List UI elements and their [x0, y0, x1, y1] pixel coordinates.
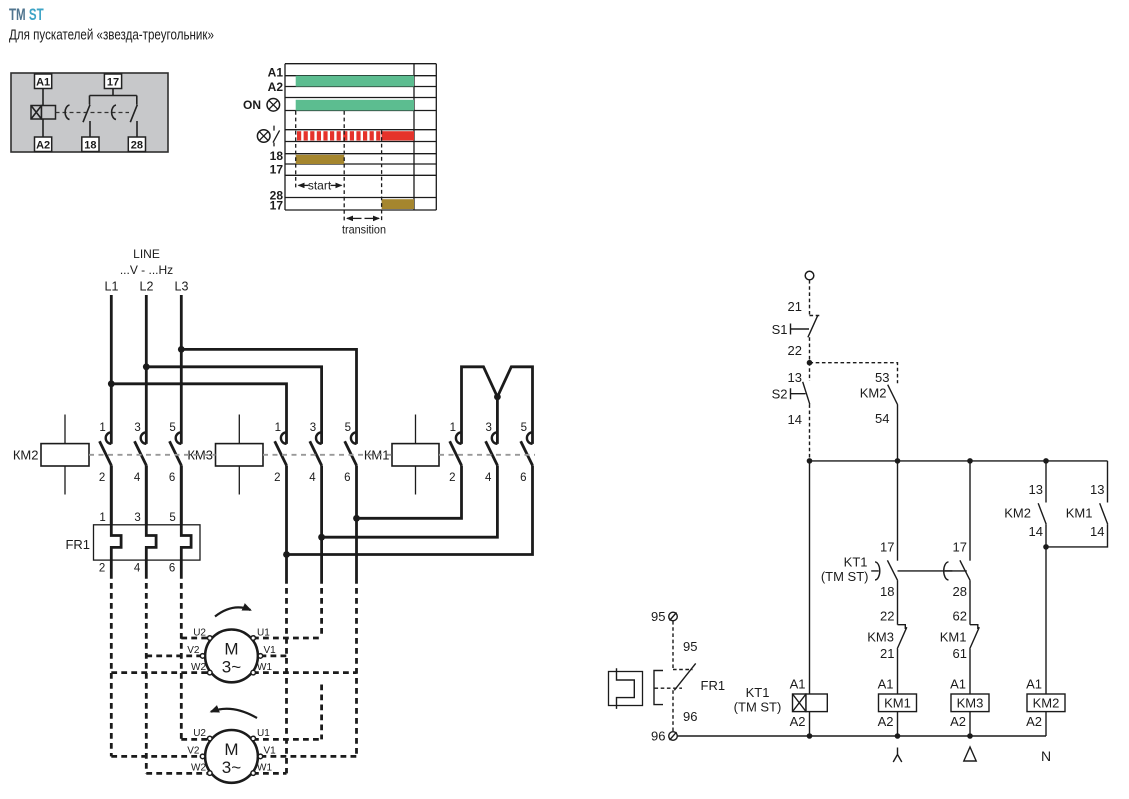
motor M1 terminal V2 [187, 645, 205, 658]
wire KM2 coil to bottom bus [1045, 712, 1047, 736]
timed contact 17-28 blade [130, 105, 137, 123]
node bottom bus x897 [895, 733, 901, 739]
cable motor2 W1 row [253, 772, 287, 775]
svg-text:61: 61 [953, 646, 967, 661]
terminal box A1 [35, 74, 52, 89]
svg-text:5: 5 [169, 512, 175, 524]
svg-text:L1: L1 [105, 280, 119, 294]
motor M1 terminal U2 [193, 628, 212, 641]
coil KM2 [13, 415, 89, 495]
contact blade pole 1-2 [450, 441, 462, 465]
wire bus to KT1 contact 17b [969, 461, 971, 561]
timed contact 17-18 delay arc [65, 105, 69, 120]
coil KT1 [793, 694, 828, 712]
coil KM1 [879, 694, 917, 712]
label KT1 (TM ST) contacts [821, 555, 869, 584]
svg-text:2: 2 [274, 472, 280, 484]
svg-text:transition: transition [342, 222, 386, 236]
pin 4 [134, 472, 141, 484]
pin 6 [520, 472, 526, 484]
svg-text:6: 6 [169, 562, 175, 574]
svg-text:U2: U2 [193, 628, 206, 639]
stop button S1 blade [808, 316, 818, 338]
wire KM2 14 to coil [1045, 524, 1047, 694]
motor M2 terminal U1 [251, 728, 270, 741]
node bus x1046 [1043, 458, 1049, 464]
FR1 bracket [654, 671, 663, 705]
chart label A1 A2 [268, 66, 284, 94]
pin 53 [875, 370, 889, 385]
supply terminal circle [805, 271, 814, 280]
svg-text:18: 18 [880, 584, 894, 599]
svg-text:28: 28 [131, 139, 143, 151]
pin A1 KM2 [1026, 677, 1042, 692]
svg-text:LINE: LINE [133, 247, 160, 261]
svg-text:2: 2 [99, 562, 105, 574]
pin 21 [788, 299, 802, 314]
wire KM1 coil to bottom bus [897, 712, 899, 736]
wire A1 box to coil [42, 89, 44, 106]
delta symbol [964, 747, 976, 761]
pin 28 [953, 584, 967, 599]
svg-text:ON: ON [243, 98, 261, 112]
wire KM3 pole 4 output [320, 465, 323, 578]
svg-text:17: 17 [270, 163, 284, 177]
FR1 pin 5 [169, 512, 175, 524]
svg-text:4: 4 [309, 472, 316, 484]
pin 14 (KM1 aux) [1090, 524, 1104, 539]
svg-text:A2: A2 [268, 80, 284, 94]
node L3 branch [178, 346, 185, 353]
svg-text:5: 5 [169, 422, 175, 434]
node KM2-KM1 aux join [1043, 544, 1049, 550]
svg-text:22: 22 [880, 609, 894, 624]
contact terminal arc pole 3 [316, 432, 322, 444]
timed contact KT1 17-18 arc [871, 562, 880, 580]
svg-text:1: 1 [99, 512, 105, 524]
pin 2 [449, 472, 455, 484]
svg-text:3: 3 [485, 422, 491, 434]
label LINE ...V - ...Hz [120, 247, 173, 277]
wire KM1 pole 2 to net C [357, 465, 462, 518]
contact blade pole 3-4 [486, 441, 498, 465]
node net B junction [318, 534, 325, 541]
chart bar flashing lamp (red striped then solid) [297, 131, 414, 140]
cable motor1 W1 row [253, 671, 357, 674]
svg-text:28: 28 [953, 584, 967, 599]
FR1 heater pole 5-6 [181, 465, 191, 573]
chart label ON [243, 98, 261, 112]
cable motor2 U2 row [181, 738, 209, 741]
svg-text:(TM ST): (TM ST) [734, 700, 782, 715]
svg-text:4: 4 [134, 562, 141, 574]
contact terminal arc pole 5 [351, 432, 357, 444]
svg-text:КМ2: КМ2 [13, 447, 39, 462]
node bus x897 [895, 458, 901, 464]
cable motor2 V2 row [111, 755, 202, 758]
terminal 96 [669, 732, 678, 741]
wire KM3 coil to bottom bus [969, 712, 971, 736]
pin 4 [309, 472, 316, 484]
pin 13 (KM1 aux) [1090, 482, 1104, 497]
wire L1 to KM3 pole 1 [111, 384, 286, 444]
wire KM1 pole 4 to net B [322, 465, 498, 537]
chart dashed time marker t2 [381, 131, 383, 222]
wire 21 to KM1 coil [897, 649, 899, 694]
FR1 pin 3 [134, 512, 140, 524]
svg-text:W2: W2 [191, 763, 206, 774]
node S1-S2 branch [807, 360, 813, 366]
contact terminal arc pole 5 [176, 432, 182, 444]
thermal relay FR1 box [65, 525, 200, 560]
svg-text:14: 14 [788, 412, 802, 427]
timed contact KT1 17-18 blade [887, 560, 897, 580]
svg-text:21: 21 [880, 646, 894, 661]
pin 95 top [651, 609, 665, 624]
contact terminal arc pole 5 [527, 432, 533, 444]
pin 14 [788, 412, 802, 427]
contact blade pole 5-6 [170, 441, 182, 465]
pin 18 [880, 584, 894, 599]
terminal box 18 [82, 137, 99, 152]
FR1 pin 4 [134, 562, 141, 574]
svg-text:KM1: KM1 [940, 629, 967, 644]
label FR1 (control) [701, 678, 726, 693]
contact blade pole 5-6 [345, 441, 357, 465]
svg-text:M: M [224, 740, 238, 759]
pin A1 KT1 [790, 677, 806, 692]
coil KM3 [187, 415, 263, 495]
svg-text:18: 18 [84, 139, 96, 151]
svg-text:2: 2 [449, 472, 455, 484]
FR1 trip contact blade [674, 663, 695, 690]
wire S2 to bus [809, 404, 811, 461]
wire bus elbow to KM1 13 [1107, 461, 1109, 503]
chart lamp contact symbol [273, 126, 280, 147]
pin 1 [99, 422, 105, 434]
motor M2 terminal V2 [187, 746, 205, 759]
svg-text:start: start [308, 179, 332, 193]
wire 18 to 22 [897, 581, 899, 625]
svg-text:13: 13 [1090, 482, 1104, 497]
mechanical link KM1 [439, 454, 535, 456]
svg-text:53: 53 [875, 370, 889, 385]
cable motor1 W2 row [111, 671, 209, 674]
FR1 heater pictogram [609, 668, 643, 709]
motor M1 terminal W1 [251, 662, 273, 675]
FR1 trip contact seat [673, 669, 693, 671]
wire between KT1 contacts [898, 570, 967, 572]
svg-text:3: 3 [134, 422, 140, 434]
timing chart grid [285, 64, 436, 210]
chart bar 18-17 closed (brown) [296, 155, 345, 164]
relay pictogram TM ST outline [11, 73, 168, 152]
pin 14 (KM2 aux) [1029, 524, 1043, 539]
wire 61 to KM3 coil [969, 649, 971, 694]
start button S2 actuator [772, 387, 806, 402]
FR1 mechanical link [655, 687, 683, 689]
title TM ST [9, 6, 44, 25]
star bridge KM1 [462, 367, 533, 444]
wire 28 to 62 [969, 581, 971, 625]
svg-text:14: 14 [1029, 524, 1043, 539]
svg-text:V2: V2 [187, 746, 200, 757]
svg-text:V2: V2 [187, 645, 200, 656]
svg-text:KM1: KM1 [884, 696, 911, 711]
svg-text:A2: A2 [878, 714, 894, 729]
motor M2 [205, 730, 258, 783]
cable motor2 U1 row [253, 738, 322, 741]
net B vertical upper (KM3 pole4 output) [320, 578, 323, 638]
wire KM3 pole 2 output [285, 465, 288, 578]
contact terminal arc pole 3 [141, 432, 147, 444]
wire contact1 to 18 box [89, 121, 91, 137]
svg-text:6: 6 [520, 472, 526, 484]
svg-text:95: 95 [651, 609, 665, 624]
svg-text:1: 1 [275, 422, 281, 434]
svg-text:13: 13 [788, 370, 802, 385]
cable motor1 V2 row [146, 655, 202, 658]
node net A junction [283, 551, 290, 558]
node L1 branch [108, 380, 115, 387]
svg-text:KM1: KM1 [1066, 506, 1093, 521]
pin 61 [953, 646, 967, 661]
mechanical link KM2 [89, 454, 216, 456]
coil KT (X-box) [31, 106, 56, 120]
svg-text:A1: A1 [268, 66, 284, 80]
terminal 95 [669, 612, 678, 621]
stop button S1 actuator [772, 322, 809, 337]
contact blade pole 5-6 [521, 441, 533, 465]
wire KM2 pole 6 to FR1 [180, 465, 183, 524]
subtitle [9, 26, 214, 43]
pin 5 [345, 422, 351, 434]
svg-text:КМ3: КМ3 [187, 447, 213, 462]
aux contact KM1 62-61 [940, 625, 980, 649]
svg-text:KM2: KM2 [860, 386, 887, 401]
label N [1041, 748, 1051, 764]
pin 6 [344, 472, 350, 484]
motor M1 rotation arrow [215, 607, 251, 616]
pin 22 (KM3 aux) [880, 609, 894, 624]
wire bus to KM2 13 [1045, 461, 1047, 503]
wire L1 [110, 295, 113, 444]
svg-text:1: 1 [99, 422, 105, 434]
svg-text:A2: A2 [36, 139, 50, 151]
node bus x970 [967, 458, 973, 464]
motor M2 terminal U2 [193, 728, 212, 741]
chart label 28 17 [270, 189, 284, 213]
svg-text:3~: 3~ [222, 758, 241, 777]
net B vertical lower [320, 685, 323, 740]
wire KM3 pole 6 output [355, 465, 358, 578]
motor M2 terminal V1 [258, 746, 276, 759]
timed contact 17-18 blade [83, 105, 90, 123]
svg-text:Для пускателей «звезда-треугол: Для пускателей «звезда-треугольник» [9, 26, 214, 43]
svg-text:21: 21 [788, 299, 802, 314]
pin A2 KM2 [1026, 714, 1042, 729]
svg-text:96: 96 [683, 709, 697, 724]
control bottom bus [677, 735, 1046, 737]
terminal box 28 [128, 137, 145, 152]
start button S2 blade [803, 382, 810, 405]
wire S1 to S2 [809, 337, 811, 381]
pin 17 (branch KM1) [880, 540, 894, 555]
pin 5 [521, 422, 527, 434]
svg-text:13: 13 [1029, 482, 1043, 497]
svg-text:W1: W1 [257, 662, 272, 673]
node L2 branch [143, 363, 150, 370]
svg-text:14: 14 [1090, 524, 1104, 539]
wire L2 [145, 295, 148, 444]
pin 21 (KM3 aux) [880, 646, 894, 661]
svg-text:W1: W1 [257, 763, 272, 774]
pin 3 [310, 422, 316, 434]
motor M1 terminal W2 [191, 662, 212, 675]
contact terminal arc pole 1 [281, 432, 287, 444]
svg-text:22: 22 [788, 343, 802, 358]
wire KM1 14 to join [1046, 524, 1108, 547]
svg-text:L3: L3 [175, 280, 189, 294]
timed contact KT1 17-28 arc [944, 562, 953, 580]
pin 17 (branch KM3) [953, 540, 967, 555]
pin 2 [274, 472, 280, 484]
wire bus to KT1 contact 17 [897, 461, 899, 561]
chart bar 28-17 closed (brown) [382, 199, 414, 209]
chart start interval arrows and label [299, 179, 342, 193]
svg-text:A1: A1 [790, 677, 806, 692]
svg-text:5: 5 [521, 422, 527, 434]
pin 4 [485, 472, 492, 484]
svg-text:KM3: KM3 [867, 629, 894, 644]
svg-text:TM ST: TM ST [9, 6, 44, 25]
svg-text:KM2: KM2 [1004, 506, 1031, 521]
label L1 L2 L3 [105, 280, 189, 294]
wire 95 to FR1 contact [672, 621, 674, 669]
svg-text:2: 2 [99, 472, 105, 484]
svg-text:FR1: FR1 [65, 537, 90, 552]
pin A2 KT1 [790, 714, 806, 729]
motor M2 rotation arrow [211, 709, 257, 718]
svg-text:N: N [1041, 748, 1051, 764]
svg-text:3: 3 [134, 512, 140, 524]
FR1 pin 6 [169, 562, 175, 574]
svg-text:A2: A2 [1026, 714, 1042, 729]
cable FR1 pole4 to motors (phase L2) [145, 573, 148, 773]
terminal box 17 [104, 74, 121, 89]
pin 1 [450, 422, 456, 434]
svg-text:U1: U1 [257, 728, 270, 739]
svg-text:54: 54 [875, 411, 889, 426]
wire L3 [180, 295, 183, 444]
svg-text:V1: V1 [264, 746, 277, 757]
pin A1 KM3 [950, 677, 966, 692]
contact terminal arc pole 3 [492, 432, 498, 444]
contact blade pole 3-4 [310, 441, 322, 465]
timed contact 17-28 delay arc [112, 105, 116, 120]
svg-text:62: 62 [953, 609, 967, 624]
pin 6 [169, 472, 175, 484]
pin A1 KM1 [878, 677, 894, 692]
chart dashed time marker t0 [295, 111, 297, 188]
aux contact KM1 13-14 blade [1066, 503, 1108, 524]
svg-text:KM3: KM3 [957, 696, 984, 711]
svg-text:6: 6 [169, 472, 175, 484]
svg-text:L2: L2 [140, 280, 154, 294]
node star point [494, 394, 501, 401]
svg-text:(TM ST): (TM ST) [821, 569, 869, 584]
svg-text:KM2: KM2 [1033, 696, 1060, 711]
wire branch to KM2 53 [810, 363, 898, 384]
chart bar ON lamp (green) [296, 100, 414, 111]
wire coil to A2 box [42, 119, 44, 137]
svg-text:...V - ...Hz: ...V - ...Hz [120, 263, 173, 277]
chart lamp symbol flashing [257, 130, 270, 143]
pin A2 KM3 [950, 714, 966, 729]
pin 3 [134, 422, 140, 434]
node bottom bus x809 [807, 733, 813, 739]
motor M1 terminal V1 [258, 645, 276, 658]
cable FR1 pole6 to motors (phase L3) [180, 573, 183, 739]
wire L3 to KM3 pole 5 [181, 349, 356, 444]
motor M1 [205, 630, 258, 683]
svg-text:FR1: FR1 [701, 678, 726, 693]
cable motor2 V1 row [261, 755, 357, 758]
chart bar A1A2 energized (green) [296, 76, 414, 87]
contact terminal arc pole 1 [456, 432, 462, 444]
pin 62 [953, 609, 967, 624]
wire FR1 contact to 96 [672, 690, 674, 732]
net C vertical (KM3 pole6 output) [355, 578, 358, 756]
cable motor1 U1 row [253, 637, 322, 640]
cable motor1 V1 row [261, 655, 287, 658]
node bus x809 [807, 458, 813, 464]
motor M2 terminal W2 [191, 763, 212, 776]
chart dashed time marker t1 [343, 111, 345, 222]
svg-text:A1: A1 [950, 677, 966, 692]
wire contact2 to 28 box [136, 121, 138, 137]
mechanical link KM3 [263, 454, 392, 456]
FR1 pin 1 [99, 512, 105, 524]
control bus top [810, 460, 1108, 462]
coil KM1 [364, 415, 439, 495]
svg-text:KT1: KT1 [746, 685, 770, 700]
stop button S1 seat [810, 315, 822, 317]
contact terminal arc pole 1 [106, 432, 112, 444]
svg-text:18: 18 [270, 149, 284, 163]
svg-text:95: 95 [683, 639, 697, 654]
motor M1 terminal U1 [251, 628, 270, 641]
net A vertical (KM3 pole2 output) [285, 578, 288, 773]
wire KM1 pole 6 to net A [287, 465, 533, 554]
contact blade pole 3-4 [135, 441, 147, 465]
pin 96 bottom [651, 729, 665, 744]
svg-text:S1: S1 [772, 322, 788, 337]
wire L2 to KM3 pole 3 [146, 367, 321, 444]
svg-text:A2: A2 [950, 714, 966, 729]
svg-text:4: 4 [134, 472, 141, 484]
svg-text:17: 17 [953, 540, 967, 555]
svg-text:96: 96 [651, 729, 665, 744]
svg-text:W2: W2 [191, 662, 206, 673]
aux contact KM2 53-54 blade [860, 385, 898, 405]
svg-text:A1: A1 [878, 677, 894, 692]
chart transition interval arrows and label [342, 218, 386, 236]
mechanical link dashed [56, 112, 130, 114]
svg-text:17: 17 [270, 198, 284, 212]
svg-text:1: 1 [450, 422, 456, 434]
node bottom bus x970 [967, 733, 973, 739]
